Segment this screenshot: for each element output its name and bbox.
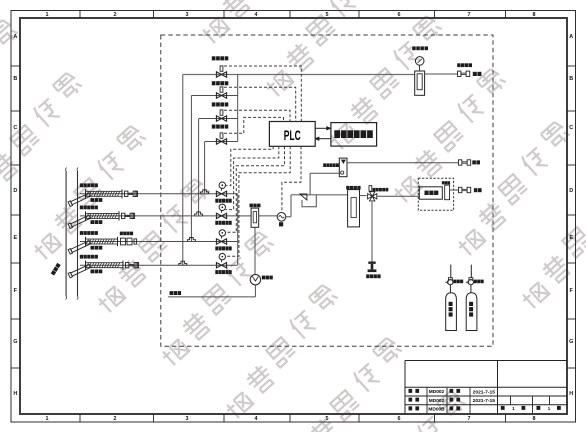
control wire SV1 to PLC (224, 66, 301, 121)
select valve MV1 (216, 182, 238, 197)
svg-text:1: 1 (548, 406, 551, 412)
svg-text:E: E (13, 235, 17, 241)
HMI panel (331, 123, 377, 147)
bottle valve 2 (466, 265, 474, 293)
svg-text:G: G (13, 339, 17, 345)
label: heated sampling gun 1 (80, 183, 98, 187)
label: rotameter (442, 181, 450, 184)
label: heated hose 1 (91, 198, 103, 202)
label: span gas 2 (vertical) (469, 302, 473, 317)
label: blowback inlet (457, 63, 481, 76)
svg-text:F: F (14, 288, 18, 294)
select valve MV4 (216, 253, 238, 267)
drain funnel valve (300, 194, 307, 200)
label: solenoid valve SV3 (212, 102, 229, 106)
label: zero gas inlet (366, 274, 380, 278)
filter F2 (348, 190, 360, 227)
svg-text:8: 8 (533, 416, 536, 422)
solenoid valve SV4 (216, 133, 226, 144)
pressure regulator filter (415, 65, 425, 95)
blowback air main line (183, 74, 415, 76)
select valve MV2 (216, 204, 238, 219)
exhaust fitting (459, 160, 471, 165)
label: solenoid valve SV2 (212, 81, 229, 85)
flange foot on sample line 3 (187, 238, 195, 242)
label: heated hose 4 (91, 270, 103, 274)
flange foot on sample line 1 (201, 190, 209, 194)
svg-text:2021-7-15: 2021-7-15 (473, 398, 496, 404)
svg-text:7: 7 (468, 12, 471, 18)
label: solenoid valve SV4 (212, 125, 229, 129)
wire: zero gas branch (371, 202, 373, 262)
control wire SV2 to PLC (224, 87, 296, 121)
three-way valve (368, 186, 377, 201)
svg-text:2: 2 (114, 416, 117, 422)
sample line 2 wire (80, 215, 216, 217)
label: heater inlet (line 3) (120, 232, 133, 236)
svg-text:7: 7 (468, 416, 471, 422)
wire: 3-way valve to analyzer (377, 195, 419, 197)
system boundary dashed box (161, 35, 493, 346)
svg-text:A: A (569, 34, 573, 40)
sample select riser wire (237, 194, 239, 265)
label: heated hose 3 (91, 246, 103, 250)
solenoid valve SV2 (216, 87, 226, 98)
svg-text:D: D (13, 188, 17, 194)
wire: sensor exhaust (347, 162, 459, 164)
label: analyzer (425, 191, 439, 195)
svg-text:4: 4 (255, 12, 258, 18)
wire: regulator to blowback inlet (425, 73, 458, 75)
heated sample hose 4 (86, 261, 124, 270)
label: HMI text (334, 130, 373, 138)
sample probe 2 (68, 214, 91, 228)
filter F1 (251, 208, 259, 227)
label: filter F1 (250, 204, 261, 208)
label: flue duct (51, 263, 61, 276)
wire: drain line (168, 285, 255, 297)
span gas bottle 1 (446, 293, 457, 331)
heated sample hose 1 (86, 189, 123, 198)
label: analyzer exhaust (474, 188, 482, 192)
svg-text:B: B (13, 76, 17, 82)
solenoid valve SV1 (216, 66, 226, 77)
label: regulator (412, 46, 428, 50)
humidity sensor (339, 158, 347, 177)
control wire SV3 to PLC (224, 110, 290, 121)
wire: filter2 to 3-way valve (360, 195, 367, 197)
sample line 3 wire (80, 241, 216, 243)
span gas bottle 2 (466, 293, 477, 331)
wire: pump up to main line (286, 195, 291, 217)
label: exhaust (472, 160, 480, 164)
label: heated sampling gun 2 (80, 206, 98, 210)
main sample wire (291, 194, 348, 196)
sample line 4 wire (80, 264, 216, 266)
svg-text:MD002: MD002 (429, 389, 445, 395)
wire: solenoid valve SV4 branch (205, 142, 238, 194)
wire: solenoid valve SV3 branch (199, 119, 238, 216)
label: pump (279, 222, 283, 226)
sample probe 1 (68, 192, 91, 206)
svg-text:MD002: MD002 (429, 398, 445, 404)
control wire PLC to MV4 (226, 146, 291, 256)
label: select valve MV1 (215, 199, 231, 203)
blowback air inlet fitting (458, 71, 470, 76)
union fittings line 3 (121, 238, 137, 245)
svg-text:1: 1 (46, 416, 49, 422)
label: select valve MV4 (215, 270, 231, 274)
trunk wire to filter1 (238, 215, 251, 217)
svg-text:5: 5 (326, 12, 329, 18)
svg-text:5: 5 (326, 416, 329, 422)
sample line 1 wire (80, 193, 216, 195)
union fittings line 1 (125, 191, 138, 196)
svg-text:3: 3 (186, 416, 189, 422)
heated sample hose 3 (86, 237, 118, 246)
condensate trap (250, 275, 260, 285)
sample probe 4 (68, 264, 91, 278)
analyzer exhaust fitting (459, 187, 471, 192)
label: drain port (170, 291, 182, 295)
svg-text:H: H (13, 391, 17, 397)
svg-text:A: A (13, 34, 17, 40)
label: condensate trap (262, 276, 273, 280)
svg-text:8: 8 (533, 12, 536, 18)
label: select valve MV2 (215, 221, 231, 225)
title block row texts (409, 389, 561, 413)
svg-text:PLC: PLC (284, 128, 301, 143)
label: bottle valve 1 (453, 280, 463, 284)
control wire PLC to MV1 (226, 146, 274, 185)
sample probe 3 (68, 240, 91, 254)
label: span gas 1 (vertical) (449, 302, 453, 317)
wire: riser to humidity sensor (310, 173, 339, 195)
svg-text:3: 3 (186, 12, 189, 18)
title block (405, 361, 567, 414)
label: filter F2 (346, 186, 360, 190)
label: solenoid valve SV1 (212, 56, 229, 60)
svg-text:C: C (13, 125, 17, 131)
svg-text:C: C (569, 125, 573, 131)
analyzer unit (419, 187, 442, 199)
arrow PLC to HMI (315, 126, 331, 130)
arrow HMI to PLC (315, 137, 331, 141)
svg-text:2: 2 (114, 12, 117, 18)
label: heated hose 2 (91, 220, 103, 224)
wire: filter1 to pump (259, 215, 278, 217)
svg-text:2021-7-15: 2021-7-15 (473, 389, 496, 395)
wire: solenoid valve SV1 branch (182, 75, 184, 265)
svg-text:H: H (569, 391, 573, 397)
PLC controller U1 (269, 122, 315, 147)
svg-text:F: F (570, 288, 574, 294)
label: heated sampling gun 4 (80, 255, 98, 259)
label: three-way valve (373, 188, 389, 192)
svg-text:MD00B: MD00B (428, 407, 445, 413)
wire: analyzer exhaust (450, 189, 459, 191)
svg-text:4: 4 (255, 416, 258, 422)
solenoid valve SV3 (216, 110, 226, 121)
control wire PLC to pump (282, 146, 301, 212)
svg-text:1: 1 (512, 406, 515, 412)
label: select valve MV3 (215, 246, 231, 250)
svg-text:6: 6 (398, 416, 401, 422)
svg-text:D: D (569, 188, 573, 194)
label: heated sampling gun 3 (80, 231, 98, 235)
pressure gauge (415, 57, 424, 66)
analyzer rotameter (445, 185, 450, 200)
wire: trap loop (302, 195, 316, 207)
control wire SV4 to PLC (224, 117, 284, 133)
flange foot on sample line 4 (179, 261, 187, 265)
union fittings line 2 (122, 213, 135, 218)
sample pump (277, 213, 286, 222)
select valve MV3 (216, 230, 238, 245)
wire: solenoid valve SV2 branch (191, 96, 237, 242)
label: humidity sensor (323, 163, 339, 167)
control wire PLC to MV3 (226, 146, 285, 232)
bottle valve 1 (445, 265, 453, 293)
svg-text:1: 1 (46, 12, 49, 18)
heated sample hose 2 (86, 211, 120, 220)
svg-text:B: B (569, 76, 573, 82)
control wire PLC to MV2 (226, 146, 279, 209)
union fittings line 4 (126, 263, 139, 268)
flange foot on sample line 2 (195, 212, 203, 216)
wire: filter1 drain (254, 227, 256, 274)
svg-text:E: E (569, 235, 573, 241)
analyzer enclosure (418, 178, 453, 210)
blowback manifold wire (237, 75, 239, 142)
svg-text:6: 6 (398, 12, 401, 18)
svg-text:G: G (569, 339, 573, 345)
flue duct wall (66, 168, 79, 300)
zero gas inlet fitting (368, 262, 377, 273)
label: bottle valve 2 (474, 280, 484, 284)
